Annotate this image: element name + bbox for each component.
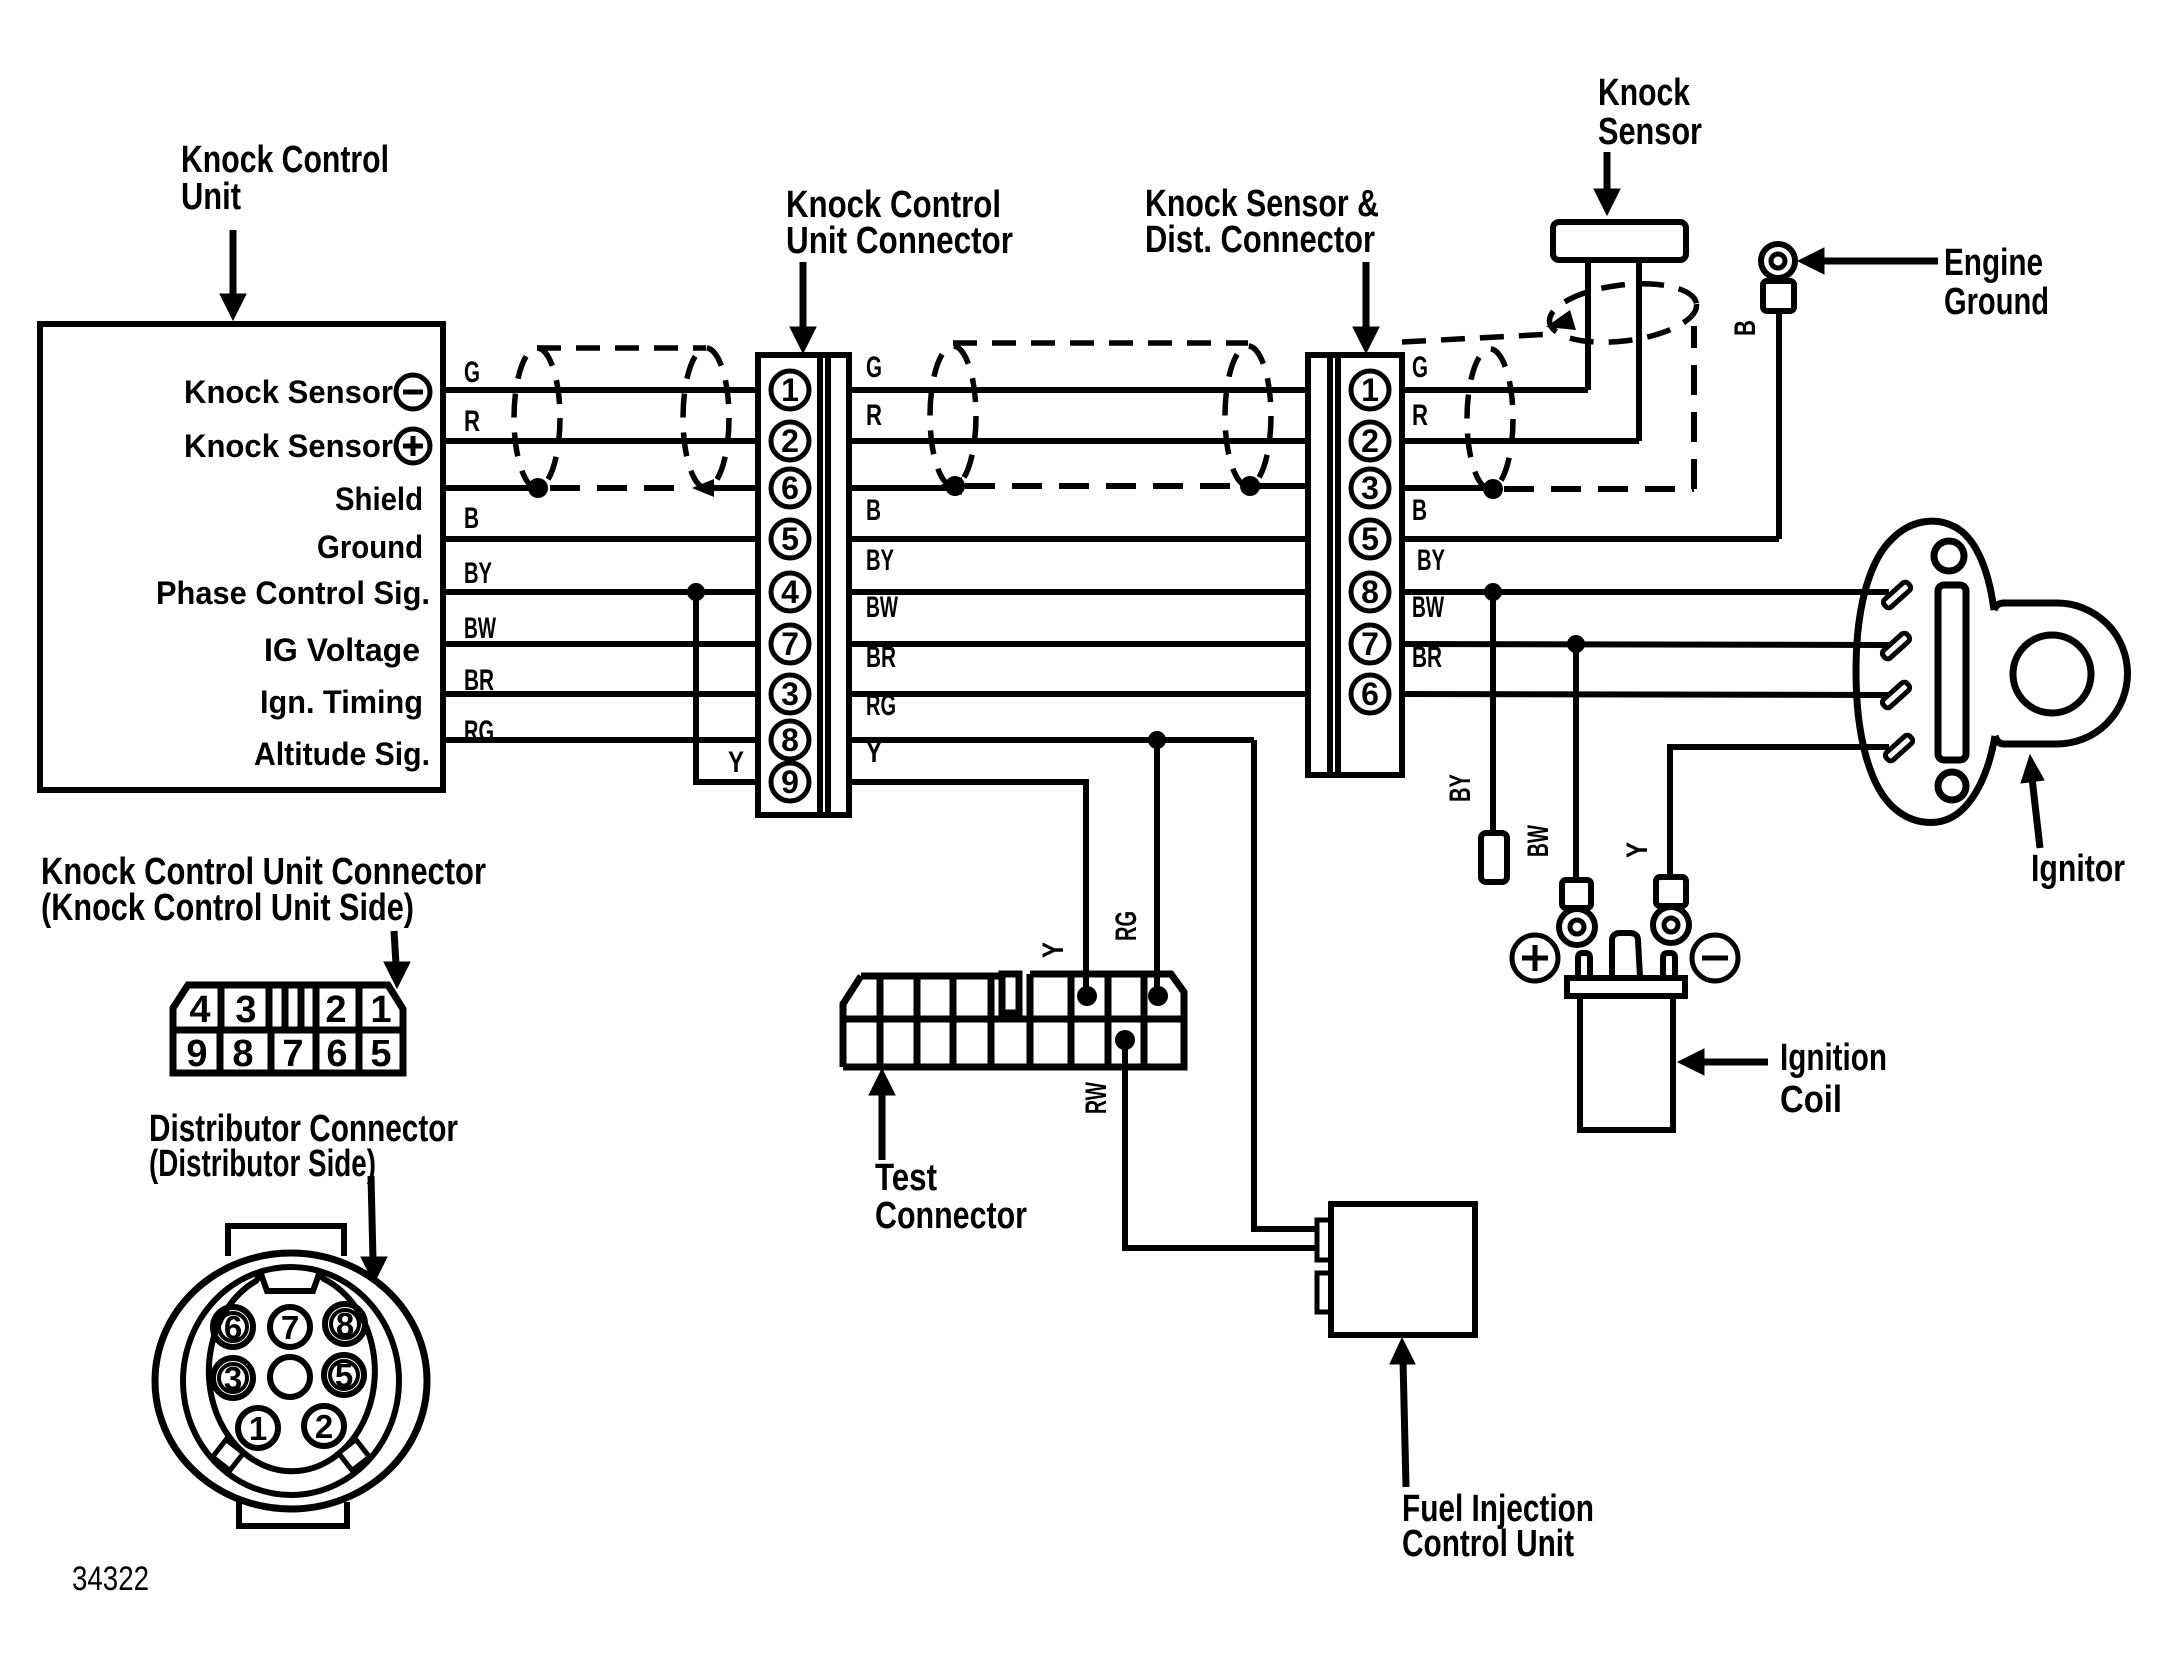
svg-text:7: 7 xyxy=(781,626,799,662)
svg-text:IG Voltage: IG Voltage xyxy=(264,632,420,668)
svg-text:BW: BW xyxy=(1522,825,1555,857)
svg-text:Knock Control: Knock Control xyxy=(181,139,389,181)
svg-text:Ignition: Ignition xyxy=(1780,1037,1887,1079)
svg-text:G: G xyxy=(866,351,882,384)
svg-text:7: 7 xyxy=(1361,626,1379,662)
svg-text:3: 3 xyxy=(224,1360,242,1397)
svg-text:Ign. Timing: Ign. Timing xyxy=(260,684,423,720)
svg-text:Altitude Sig.: Altitude Sig. xyxy=(254,736,430,772)
svg-text:BY: BY xyxy=(464,557,492,590)
svg-text:RG: RG xyxy=(866,689,896,722)
svg-text:Y: Y xyxy=(866,736,882,769)
svg-text:1: 1 xyxy=(249,1410,267,1447)
svg-text:6: 6 xyxy=(224,1309,242,1346)
svg-text:Y: Y xyxy=(728,746,744,779)
svg-text:2: 2 xyxy=(325,989,346,1031)
svg-text:B: B xyxy=(866,494,881,527)
svg-text:B: B xyxy=(1729,320,1762,336)
svg-text:7: 7 xyxy=(281,1309,299,1346)
svg-text:Connector: Connector xyxy=(875,1195,1027,1237)
svg-text:2: 2 xyxy=(315,1408,333,1445)
svg-text:5: 5 xyxy=(370,1033,391,1075)
svg-text:9: 9 xyxy=(781,764,799,800)
svg-text:4: 4 xyxy=(189,989,210,1031)
svg-text:BW: BW xyxy=(1412,591,1444,624)
svg-text:B: B xyxy=(1412,494,1427,527)
svg-text:9: 9 xyxy=(186,1033,207,1075)
svg-text:R: R xyxy=(866,399,882,432)
svg-text:4: 4 xyxy=(781,574,799,610)
svg-text:Test: Test xyxy=(875,1157,937,1199)
svg-text:BR: BR xyxy=(866,641,896,674)
svg-text:3: 3 xyxy=(1361,470,1379,506)
svg-text:R: R xyxy=(1412,399,1428,432)
svg-text:1: 1 xyxy=(781,372,799,408)
svg-text:Knock: Knock xyxy=(1598,72,1691,114)
svg-text:BY: BY xyxy=(866,544,894,577)
svg-text:RG: RG xyxy=(1110,911,1143,941)
svg-text:G: G xyxy=(1412,351,1428,384)
svg-text:3: 3 xyxy=(781,676,799,712)
svg-text:Sensor: Sensor xyxy=(1598,111,1702,153)
svg-text:RW: RW xyxy=(1080,1082,1113,1114)
svg-text:Y: Y xyxy=(1037,942,1070,958)
svg-text:BY: BY xyxy=(1417,544,1445,577)
svg-text:Ground: Ground xyxy=(317,529,423,565)
svg-text:7: 7 xyxy=(282,1033,303,1075)
svg-text:Dist. Connector: Dist. Connector xyxy=(1145,219,1375,261)
svg-text:(Distributor Side): (Distributor Side) xyxy=(149,1143,376,1185)
svg-text:Ignitor: Ignitor xyxy=(2031,848,2125,890)
svg-text:3: 3 xyxy=(235,989,256,1031)
svg-text:Knock Sensor: Knock Sensor xyxy=(184,374,393,410)
svg-text:6: 6 xyxy=(1361,676,1379,712)
svg-text:BR: BR xyxy=(1412,641,1442,674)
svg-text:B: B xyxy=(464,502,479,535)
svg-text:8: 8 xyxy=(336,1306,354,1343)
svg-text:5: 5 xyxy=(1361,521,1379,557)
svg-text:G: G xyxy=(464,356,480,389)
svg-text:BW: BW xyxy=(464,612,496,645)
svg-text:6: 6 xyxy=(781,470,799,506)
svg-text:34322: 34322 xyxy=(72,1560,149,1598)
svg-text:2: 2 xyxy=(781,423,799,459)
svg-text:Control Unit: Control Unit xyxy=(1402,1523,1574,1565)
svg-text:Knock Sensor: Knock Sensor xyxy=(184,428,393,464)
svg-text:5: 5 xyxy=(335,1357,353,1394)
svg-text:8: 8 xyxy=(781,722,799,758)
svg-text:Y: Y xyxy=(1621,842,1654,858)
svg-text:(Knock Control Unit Side): (Knock Control Unit Side) xyxy=(41,887,414,929)
svg-text:R: R xyxy=(464,405,480,438)
svg-text:BR: BR xyxy=(464,664,494,697)
svg-text:1: 1 xyxy=(1361,372,1379,408)
svg-text:2: 2 xyxy=(1361,423,1379,459)
svg-text:Ground: Ground xyxy=(1944,281,2049,323)
svg-text:8: 8 xyxy=(232,1033,253,1075)
svg-text:5: 5 xyxy=(781,521,799,557)
svg-text:Engine: Engine xyxy=(1944,242,2043,284)
svg-text:8: 8 xyxy=(1361,574,1379,610)
svg-text:Phase Control Sig.: Phase Control Sig. xyxy=(156,575,430,611)
svg-text:Shield: Shield xyxy=(335,481,423,517)
svg-text:6: 6 xyxy=(326,1033,347,1075)
svg-text:BY: BY xyxy=(1444,774,1477,802)
svg-text:1: 1 xyxy=(370,989,391,1031)
svg-text:Unit: Unit xyxy=(181,176,241,218)
svg-text:RG: RG xyxy=(464,715,494,748)
svg-text:Coil: Coil xyxy=(1780,1079,1842,1121)
svg-text:BW: BW xyxy=(866,591,898,624)
svg-text:Unit Connector: Unit Connector xyxy=(786,220,1013,262)
